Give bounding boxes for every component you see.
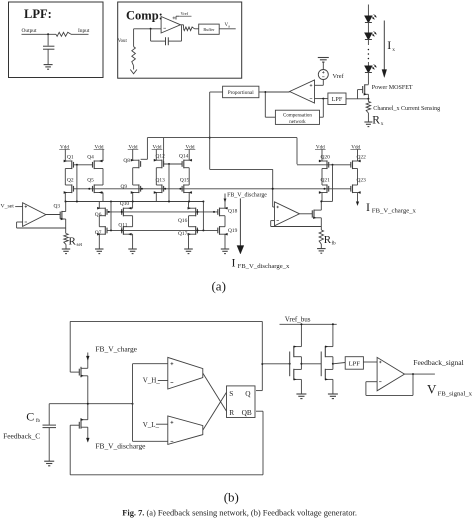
svg-text:FB_V_discharge: FB_V_discharge bbox=[95, 442, 146, 451]
svg-text:Input: Input bbox=[78, 28, 90, 34]
svg-text:Q: Q bbox=[245, 389, 251, 398]
svg-text:(a): (a) bbox=[211, 278, 225, 293]
svg-text:Q3: Q3 bbox=[54, 204, 61, 210]
svg-text:set: set bbox=[77, 243, 83, 248]
svg-text:LPF: LPF bbox=[349, 361, 361, 368]
svg-text:Feedback_C: Feedback_C bbox=[3, 431, 40, 440]
svg-text:Buffer: Buffer bbox=[203, 27, 215, 32]
svg-text:FB_V_charge: FB_V_charge bbox=[95, 345, 137, 354]
svg-text:Q13: Q13 bbox=[156, 177, 166, 183]
svg-text:Q19: Q19 bbox=[228, 228, 238, 234]
svg-text:Q10: Q10 bbox=[120, 201, 130, 207]
svg-text:Vref_bus: Vref_bus bbox=[285, 316, 311, 324]
svg-text:Q8: Q8 bbox=[123, 158, 130, 164]
svg-text:Channel_x Current Sensing: Channel_x Current Sensing bbox=[373, 106, 440, 112]
svg-text:V_L_: V_L_ bbox=[143, 421, 160, 429]
svg-text:Vout: Vout bbox=[118, 39, 128, 44]
svg-text:Q2: Q2 bbox=[67, 178, 74, 184]
svg-text:Q18: Q18 bbox=[228, 209, 238, 215]
svg-text:Vref: Vref bbox=[333, 73, 345, 80]
svg-text:Vref: Vref bbox=[181, 11, 189, 16]
svg-text:R: R bbox=[69, 235, 77, 247]
svg-text:R: R bbox=[372, 115, 380, 127]
svg-text:Q14: Q14 bbox=[179, 154, 189, 160]
svg-text:FB_V_discharge: FB_V_discharge bbox=[227, 192, 267, 198]
svg-text:Power MOSFET: Power MOSFET bbox=[372, 85, 413, 91]
svg-text:Q17: Q17 bbox=[178, 231, 188, 237]
svg-text:Q16: Q16 bbox=[178, 218, 188, 224]
svg-text:x: x bbox=[381, 121, 384, 127]
svg-text:Fig. 7. (a) Feedback sensing n: Fig. 7. (a) Feedback sensing network, (b… bbox=[122, 509, 357, 518]
svg-text:Comp:: Comp: bbox=[126, 9, 163, 23]
svg-text:FB_V_charge_x: FB_V_charge_x bbox=[372, 207, 417, 214]
svg-text:(b): (b) bbox=[224, 490, 239, 505]
svg-text:LPF:: LPF: bbox=[24, 7, 52, 21]
svg-text:Output: Output bbox=[22, 28, 37, 34]
svg-text:I: I bbox=[387, 38, 391, 52]
svg-text:LPF: LPF bbox=[332, 96, 343, 103]
svg-text:fb: fb bbox=[332, 241, 337, 246]
svg-text:I: I bbox=[232, 255, 236, 269]
svg-text:Q7: Q7 bbox=[95, 230, 102, 236]
svg-text:S: S bbox=[229, 389, 233, 398]
svg-text:Q5: Q5 bbox=[87, 178, 94, 184]
svg-text:Q4: Q4 bbox=[87, 154, 94, 160]
svg-text:Q11: Q11 bbox=[118, 222, 127, 228]
svg-text:C: C bbox=[26, 409, 34, 423]
svg-text:fb: fb bbox=[36, 419, 41, 424]
svg-text:Compensation: Compensation bbox=[283, 114, 312, 119]
svg-text:R: R bbox=[229, 408, 234, 417]
svg-text:Q1: Q1 bbox=[67, 154, 74, 160]
svg-text:Q12: Q12 bbox=[156, 154, 166, 160]
svg-text:V_H_: V_H_ bbox=[143, 377, 161, 385]
svg-text:FB_V_discharge_x: FB_V_discharge_x bbox=[238, 263, 291, 270]
svg-text:x: x bbox=[392, 47, 395, 53]
svg-text:a: a bbox=[228, 24, 230, 28]
svg-text:Proportional: Proportional bbox=[228, 90, 254, 96]
svg-text:I: I bbox=[366, 200, 370, 214]
svg-text:QB: QB bbox=[242, 408, 252, 417]
svg-text:V: V bbox=[427, 382, 437, 397]
svg-text:Q6: Q6 bbox=[95, 212, 102, 218]
svg-text:FB_signal_x: FB_signal_x bbox=[438, 390, 473, 397]
svg-text:network: network bbox=[289, 120, 306, 125]
svg-text:V_set: V_set bbox=[1, 203, 15, 209]
svg-text:Feedback_signal: Feedback_signal bbox=[413, 358, 463, 367]
svg-text:Q15: Q15 bbox=[180, 177, 190, 183]
